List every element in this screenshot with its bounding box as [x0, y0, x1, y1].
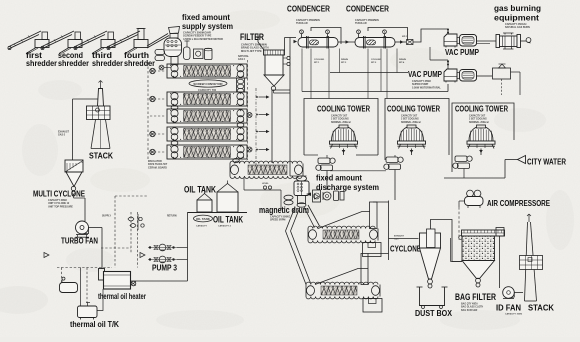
- tower pump 3: [453, 156, 472, 169]
- belt to supply hopper: [147, 34, 169, 49]
- PUMP 3 label: [152, 264, 177, 273]
- rotary kiln oval tag: [189, 80, 227, 92]
- svg-text:NOMINAL 200kcal: NOMINAL 200kcal: [401, 121, 421, 124]
- ID FAN label: [496, 303, 523, 316]
- condenser water drops: [302, 49, 406, 99]
- svg-text:MP-1: MP-1: [402, 36, 408, 38]
- svg-text:WT-2: WT-2: [371, 62, 377, 64]
- conveyor A hood: [318, 202, 377, 229]
- pump2 discharge line: [448, 76, 492, 92]
- svg-text:CAPACITY 30M3: CAPACITY 30M3: [505, 313, 523, 316]
- kiln inlet valve: [150, 96, 155, 101]
- oil feed line: [244, 178, 281, 210]
- svg-text:DRAIN: DRAIN: [399, 58, 406, 61]
- svg-text:AIR COMPRESSORE: AIR COMPRESSORE: [487, 199, 551, 208]
- reducer fitting: [402, 36, 413, 45]
- svg-text:supply system: supply system: [182, 21, 233, 31]
- AIR COMPRESSORE label: [487, 199, 551, 208]
- condenser 1: [298, 30, 338, 49]
- STACK label left: [89, 151, 114, 161]
- TURBO FAN label: [61, 236, 98, 246]
- cyclone body: [420, 222, 441, 288]
- svg-text:BAG GLASS CLOTH: BAG GLASS CLOTH: [461, 306, 484, 309]
- connector kiln4-kiln5: [171, 141, 178, 145]
- svg-text:GAS 2: GAS 2: [238, 58, 246, 61]
- svg-text:TUBULAR: TUBULAR: [355, 22, 367, 25]
- tower pump 1: [316, 158, 335, 171]
- kiln 5 right valve: [247, 147, 252, 152]
- CYCLONE label: [390, 245, 421, 254]
- supply aux devices: [184, 41, 213, 60]
- dash-dot line right of kilns: [255, 88, 257, 168]
- insulation note: [148, 160, 168, 169]
- OIL TANK label lower: [213, 215, 243, 225]
- connector kiln2-kiln3: [171, 105, 178, 109]
- OIL TANK label upper: [184, 185, 216, 195]
- tower pump 2: [384, 157, 403, 170]
- svg-text:WT-3: WT-3: [341, 62, 347, 64]
- svg-text:COOLING: COOLING: [314, 59, 325, 61]
- expansion tank: [60, 277, 78, 292]
- svg-text:OIL TANK: OIL TANK: [184, 185, 216, 195]
- bag filter: [459, 230, 505, 287]
- svg-text:gas burning: gas burning: [494, 3, 541, 13]
- svg-text:CYCLONE: CYCLONE: [390, 245, 421, 254]
- kiln inlet valve: [150, 149, 155, 154]
- vac pump 1: [444, 34, 477, 48]
- fourth shredder: [107, 29, 148, 54]
- svg-text:CAPACITY: CAPACITY: [196, 225, 208, 228]
- air compressor: [459, 190, 483, 208]
- conveyor A: [308, 226, 378, 243]
- svg-text:shredder: shredder: [92, 59, 123, 68]
- filter side nozzles: [283, 56, 290, 65]
- gas burning equipment label: [494, 3, 541, 29]
- second shredder: [41, 31, 82, 54]
- kiln gas arrows and riser: [256, 90, 290, 163]
- svg-text:5.5KW MOTOR/NATURAL: 5.5KW MOTOR/NATURAL: [412, 86, 441, 89]
- kiln inlet valve: [150, 68, 155, 73]
- svg-text:NATURAL: NATURAL: [238, 55, 250, 58]
- svg-text:FILTER: FILTER: [240, 31, 264, 42]
- right stack: [520, 214, 543, 301]
- svg-text:LEVEL: LEVEL: [262, 183, 269, 185]
- DUST BOX label: [415, 308, 452, 318]
- filter gas outlet: [285, 38, 297, 51]
- big oil tank: [217, 181, 238, 213]
- kiln 2 screw reactor: [150, 92, 247, 106]
- svg-text:MULTI JET TYPE: MULTI JET TYPE: [241, 49, 262, 53]
- CITY WATER: [505, 156, 567, 179]
- svg-text:COOLING TOWER: COOLING TOWER: [317, 105, 370, 114]
- COOLING TOWER label: [317, 105, 370, 124]
- svg-text:thermal oil heater: thermal oil heater: [98, 291, 146, 301]
- inline valve marks: [44, 253, 145, 258]
- svg-text:WT-1: WT-1: [314, 62, 320, 64]
- feed valve: [159, 65, 171, 70]
- gas burning equipment body: [496, 33, 531, 49]
- svg-text:4.5KW x 2EA INVERTER MOTOR: 4.5KW x 2EA INVERTER MOTOR: [183, 37, 223, 41]
- oil supply dashed network: [101, 196, 177, 268]
- oil manifold valves: [128, 214, 144, 230]
- thermal oil T/K tank: [78, 303, 98, 320]
- cyclone to fan pipe: [74, 194, 86, 221]
- MULTI CYCLONE label: [33, 189, 85, 209]
- discharge system devices: [306, 190, 344, 202]
- svg-text:OIL TANK: OIL TANK: [196, 217, 211, 221]
- condenser 2: [355, 30, 395, 49]
- thermal oil piping dashed: [57, 268, 112, 311]
- fan discharge: [89, 228, 103, 270]
- svg-text:TUBULAR: TUBULAR: [296, 22, 308, 25]
- svg-text:2 SET COOLING: 2 SET COOLING: [331, 119, 349, 121]
- svg-text:EXHAUST: EXHAUST: [58, 131, 70, 134]
- oil tank stamp: [194, 215, 232, 227]
- kiln 5 screw reactor: [150, 145, 247, 159]
- tower outlet lines: [304, 155, 505, 200]
- svg-text:DRAIN: DRAIN: [341, 58, 348, 61]
- svg-text:shredder: shredder: [26, 59, 57, 68]
- CONDENCER 2 label: [346, 5, 389, 26]
- svg-text:VAC PUMP: VAC PUMP: [445, 47, 479, 57]
- kiln5-conveyor connector: [233, 158, 239, 162]
- kiln 4 screw reactor: [150, 127, 247, 141]
- svg-text:ID FAN: ID FAN: [496, 303, 521, 313]
- label first shredder: [26, 51, 57, 68]
- vac pump 2 suction: [430, 47, 449, 69]
- STACK label right: [528, 303, 555, 313]
- small oil tank: [197, 191, 212, 212]
- label second shredder: [58, 51, 89, 68]
- COOLING TOWER label: [387, 105, 440, 124]
- dust box: [417, 287, 448, 309]
- PUMP 3: [148, 244, 177, 263]
- BAG FILTER label: [455, 292, 497, 312]
- left stack: [87, 81, 111, 149]
- flare valve box: [493, 64, 521, 95]
- svg-text:CAPACITY 30T: CAPACITY 30T: [401, 115, 418, 118]
- svg-text:RETURN: RETURN: [167, 216, 177, 218]
- third shredder: [74, 31, 115, 54]
- svg-text:CITY WATER: CITY WATER: [527, 157, 567, 167]
- vac pump 1 suction piping: [413, 29, 449, 43]
- svg-text:SCREW CONVEYOR: SCREW CONVEYOR: [193, 82, 223, 86]
- svg-text:fixed amount: fixed amount: [316, 173, 362, 183]
- label fourth shredder: [124, 51, 155, 68]
- filter inlet pipe: [257, 34, 264, 50]
- VAC PUMP 1 label: [445, 47, 479, 57]
- conveyor A discharge box: [363, 243, 382, 257]
- tower enclosure 3: [452, 103, 514, 172]
- filter vessel: [264, 50, 285, 91]
- filter drain line: [274, 91, 291, 94]
- connector kiln3-kiln4: [237, 123, 244, 127]
- svg-text:MULTI CYCLONE: MULTI CYCLONE: [33, 189, 85, 199]
- svg-text:UNIT TOP PRESSURE: UNIT TOP PRESSURE: [48, 205, 73, 208]
- svg-text:BAG SUFFLER: BAG SUFFLER: [461, 309, 478, 312]
- svg-text:CAPACITY 700: CAPACITY 700: [198, 88, 217, 92]
- svg-text:CERAM. BOARD: CERAM. BOARD: [148, 166, 167, 169]
- kiln 3 screw reactor: [150, 109, 247, 123]
- svg-text:NATURAL GAS BURN: NATURAL GAS BURN: [505, 26, 530, 29]
- svg-text:COOLING TOWER: COOLING TOWER: [387, 105, 440, 114]
- svg-text:SPEED 5RPM: SPEED 5RPM: [270, 219, 285, 222]
- magnetic drum: [284, 181, 309, 207]
- svg-text:COOLING TOWER: COOLING TOWER: [455, 105, 508, 114]
- svg-text:WT-4: WT-4: [399, 61, 405, 64]
- COOLING TOWER label: [455, 105, 508, 124]
- svg-text:GAS-2: GAS-2: [58, 134, 66, 137]
- discharge conveyor: [230, 161, 303, 178]
- svg-text:shredder: shredder: [124, 59, 155, 68]
- svg-text:magnetic drum: magnetic drum: [259, 205, 309, 215]
- dashed line under filter: [238, 55, 250, 160]
- svg-text:shredder: shredder: [58, 59, 89, 68]
- svg-text:VAC PUMP: VAC PUMP: [408, 69, 442, 79]
- condenser interconnect piping: [294, 28, 408, 45]
- thermal oil T/K label: [70, 319, 120, 329]
- ID fan: [503, 287, 523, 299]
- svg-text:2 SET COOLING: 2 SET COOLING: [469, 119, 487, 121]
- svg-text:PUMP 3: PUMP 3: [152, 264, 177, 273]
- long water headers: [302, 73, 448, 92]
- kiln 1 screw reactor: [150, 64, 247, 78]
- cooling tower: [467, 125, 495, 155]
- CONDENCER 1 label: [287, 5, 330, 26]
- bag filter inlet: [451, 238, 463, 262]
- svg-text:thermal oil T/K: thermal oil T/K: [70, 319, 120, 329]
- cooling tower: [398, 125, 426, 155]
- tank base line: [188, 212, 247, 214]
- long chute to lower conveyor: [286, 231, 311, 285]
- svg-text:discharge system: discharge system: [316, 182, 379, 192]
- flue pipe to stack: [58, 99, 98, 160]
- conveyor B discharge box: [363, 299, 382, 313]
- Y chute from drum: [286, 205, 320, 231]
- kiln inlet valve: [150, 131, 155, 136]
- svg-text:STACK: STACK: [528, 303, 555, 313]
- conveyor B: [306, 282, 380, 299]
- cooling tower: [330, 125, 358, 155]
- FILTER label: [240, 31, 269, 53]
- svg-text:CAPACITY 30T: CAPACITY 30T: [469, 115, 486, 118]
- svg-text:CAPACITY 30T: CAPACITY 30T: [331, 115, 348, 118]
- svg-text:OIL TANK: OIL TANK: [213, 215, 243, 225]
- label third shredder: [92, 51, 123, 68]
- thermal oil heater label: [98, 291, 146, 301]
- svg-text:BAG FILTER: BAG FILTER: [455, 292, 497, 302]
- tower enclosure 1: [304, 99, 378, 156]
- bag filter outlet duct: [496, 228, 504, 289]
- conveyor B vent duct: [368, 253, 389, 255]
- VAC PUMP 2 label: [408, 69, 442, 89]
- svg-text:BAG QTY 48EA: BAG QTY 48EA: [461, 303, 478, 306]
- fixed amount supply system label: [182, 12, 233, 41]
- main drop line to drum: [290, 38, 297, 177]
- supply hopper feeder: [155, 27, 182, 65]
- conveyor B hood: [315, 254, 368, 285]
- svg-text:NOMINAL 200kcal: NOMINAL 200kcal: [469, 121, 489, 124]
- svg-text:CAPACITY 2: CAPACITY 2: [218, 225, 232, 228]
- connector kiln1-kiln2: [237, 78, 245, 93]
- svg-text:GAS: GAS: [394, 238, 399, 241]
- tower enclosure 2: [385, 99, 449, 161]
- compressed air dashed line: [458, 207, 460, 240]
- vac pump discharge to gas equipment: [477, 41, 496, 44]
- svg-text:DUST BOX: DUST BOX: [415, 308, 452, 318]
- kiln 3 right valve: [247, 113, 252, 118]
- vac pump 2: [444, 69, 477, 83]
- cyclone outlet loop: [431, 220, 463, 262]
- svg-text:COOLING: COOLING: [371, 59, 382, 61]
- svg-text:EXHAUST: EXHAUST: [394, 235, 405, 238]
- svg-text:CONDENCER: CONDENCER: [287, 5, 330, 14]
- drum top connector: [297, 176, 307, 181]
- svg-text:equipment: equipment: [494, 13, 539, 23]
- multi cyclone body: [65, 160, 83, 194]
- fixed amount discharge system label: [316, 173, 379, 193]
- first shredder: [8, 31, 49, 54]
- svg-text:STACK: STACK: [89, 151, 114, 161]
- magnetic drum label: [259, 205, 309, 222]
- svg-text:NOMINAL 200kcal: NOMINAL 200kcal: [331, 121, 351, 124]
- thermal oil heater: [99, 269, 137, 290]
- turbo fan: [76, 221, 90, 237]
- dashed supply bus left of kilns: [147, 62, 149, 160]
- svg-text:CONDENCER: CONDENCER: [346, 5, 389, 14]
- svg-text:SUPPLY: SUPPLY: [102, 216, 111, 218]
- svg-text:2 SET COOLING: 2 SET COOLING: [401, 119, 419, 121]
- duct to cyclone: [373, 201, 419, 261]
- pump3 loop piping: [131, 212, 188, 281]
- svg-text:TURBO FAN: TURBO FAN: [61, 236, 98, 246]
